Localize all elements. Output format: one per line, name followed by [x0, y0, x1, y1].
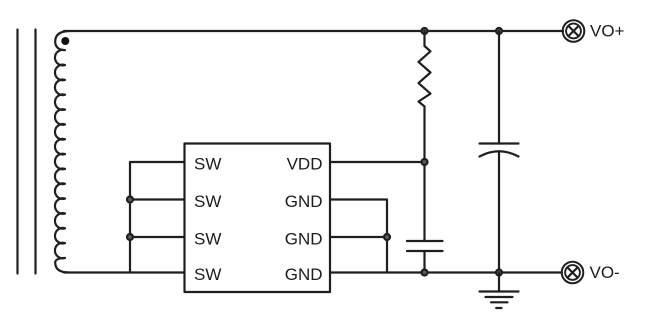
terminal VO- inner circle — [565, 265, 580, 280]
ground stub — [498, 273, 500, 292]
svg-text:SW: SW — [194, 155, 221, 174]
wire top rail VO+ — [64, 30, 563, 32]
node SW bus junction lower — [127, 234, 133, 240]
node top rail at C2 — [496, 28, 502, 34]
node VDD junction — [422, 159, 428, 165]
transformer winding L1 — [55, 31, 69, 273]
svg-text:GND: GND — [285, 230, 323, 249]
svg-text:SW: SW — [194, 192, 221, 211]
svg-text:VO+: VO+ — [590, 22, 625, 41]
svg-text:SW: SW — [194, 265, 221, 284]
svg-text:VDD: VDD — [287, 155, 323, 174]
wire bottom rail left — [64, 271, 185, 273]
terminal VO+ inner circle — [566, 24, 581, 39]
ground bar 4 — [496, 307, 501, 309]
polarity dot — [61, 37, 69, 45]
node top rail at resistor — [422, 28, 428, 34]
ground bar 1 — [480, 290, 519, 292]
svg-text:SW: SW — [194, 230, 221, 249]
capacitor C2 curved plate — [480, 151, 519, 156]
svg-text:VO-: VO- — [590, 263, 620, 282]
node GND bus junction — [384, 234, 390, 240]
terminal VO+ outer circle — [563, 20, 585, 42]
IC U1 body — [185, 144, 331, 293]
ground bar 2 — [486, 296, 513, 298]
capacitor C2 plate top — [480, 142, 519, 144]
wire bottom rail right — [330, 271, 562, 273]
wire C2 to bottom rail — [498, 152, 500, 273]
wire VDD — [330, 161, 425, 163]
capacitor C1 plate top — [407, 240, 443, 242]
resistor R1 — [419, 46, 431, 107]
ground bar 3 — [491, 301, 508, 303]
wire resistor to capacitor — [423, 107, 425, 242]
svg-text:GND: GND — [285, 265, 323, 284]
wire C2 branch top — [498, 31, 500, 144]
wire capacitor C1 to bottom rail — [423, 251, 425, 273]
svg-text:GND: GND — [285, 192, 323, 211]
terminal VO- cross — [567, 267, 577, 277]
transformer core line 2 — [34, 30, 36, 274]
wire resistor branch top — [423, 31, 425, 46]
wire GND pin 2 — [330, 236, 387, 238]
capacitor C1 plate bottom — [407, 250, 443, 252]
terminal VO- outer circle — [562, 262, 584, 284]
wire SW bus — [130, 162, 185, 273]
transformer core line 1 — [16, 30, 18, 274]
terminal VO+ cross — [568, 26, 578, 36]
node bottom rail at C1 — [422, 270, 428, 276]
node bottom rail at C2 — [496, 270, 502, 276]
node SW bus junction upper — [127, 197, 133, 203]
wire GND pin 1 — [330, 200, 387, 273]
